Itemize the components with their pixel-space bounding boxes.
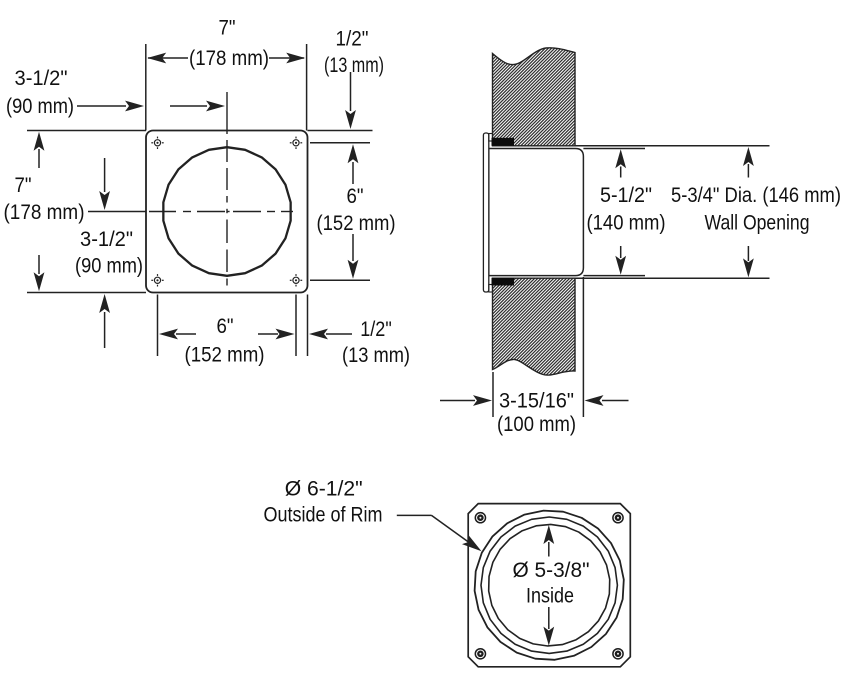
svg-text:6": 6" bbox=[217, 314, 234, 338]
svg-text:7": 7" bbox=[219, 15, 236, 39]
svg-text:Inside: Inside bbox=[526, 583, 574, 607]
svg-text:(152 mm): (152 mm) bbox=[317, 211, 396, 235]
svg-text:5-3/4" Dia. (146 mm): 5-3/4" Dia. (146 mm) bbox=[671, 183, 841, 207]
svg-text:(140 mm): (140 mm) bbox=[587, 210, 666, 234]
svg-text:(90 mm): (90 mm) bbox=[75, 253, 143, 277]
svg-text:(90 mm): (90 mm) bbox=[6, 94, 74, 118]
svg-text:3-15/16": 3-15/16" bbox=[499, 388, 574, 412]
svg-text:Ø 5-3/8": Ø 5-3/8" bbox=[513, 558, 590, 582]
svg-text:Ø 6-1/2": Ø 6-1/2" bbox=[285, 476, 363, 500]
svg-text:(13 mm): (13 mm) bbox=[342, 343, 410, 367]
svg-text:(178 mm): (178 mm) bbox=[189, 46, 269, 70]
svg-text:3-1/2": 3-1/2" bbox=[15, 66, 68, 90]
svg-text:5-1/2": 5-1/2" bbox=[600, 183, 652, 207]
svg-text:6": 6" bbox=[347, 184, 364, 208]
svg-text:1/2": 1/2" bbox=[336, 26, 369, 50]
svg-text:7": 7" bbox=[15, 173, 32, 197]
svg-text:(152 mm): (152 mm) bbox=[185, 342, 265, 366]
svg-text:(13 mm): (13 mm) bbox=[324, 53, 384, 77]
svg-text:1/2": 1/2" bbox=[360, 317, 392, 341]
svg-text:(100 mm): (100 mm) bbox=[497, 412, 576, 436]
svg-text:(178 mm): (178 mm) bbox=[4, 200, 85, 224]
svg-text:3-1/2": 3-1/2" bbox=[80, 227, 133, 251]
svg-text:Wall Opening: Wall Opening bbox=[705, 210, 810, 234]
svg-text:Outside of Rim: Outside of Rim bbox=[264, 503, 383, 527]
